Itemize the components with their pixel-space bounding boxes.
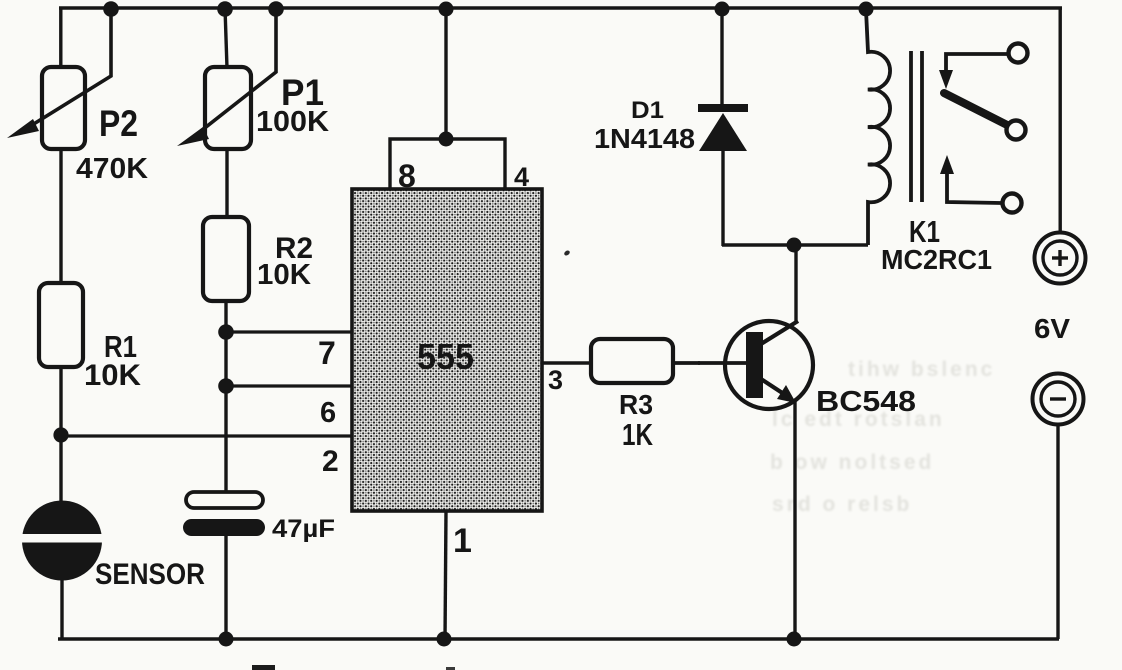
potentiometer P2 wiper arrow xyxy=(7,14,111,138)
resistor R3 xyxy=(591,339,673,383)
wire column to capacitor xyxy=(224,332,227,493)
wire top rail xyxy=(59,6,1062,10)
wire 555 supply drop xyxy=(444,8,447,140)
node top-rail P1 wiper junction xyxy=(268,1,284,17)
node top-rail P2 wiper junction xyxy=(103,1,119,17)
sensor xyxy=(16,501,110,581)
ghost bleed-through text row 3 xyxy=(770,451,934,474)
ghost bleed-through text row 2 xyxy=(772,408,945,431)
svg-text:R3: R3 xyxy=(619,389,653,420)
svg-text:P2: P2 xyxy=(99,103,138,144)
relay contact bottom xyxy=(1003,194,1022,213)
relay contact middle xyxy=(1007,121,1026,140)
caption fragment Di xyxy=(252,665,275,670)
capacitor C1 top plate xyxy=(186,492,263,508)
wire collector up xyxy=(794,246,797,322)
svg-text:3: 3 xyxy=(548,365,563,395)
ghost bleed-through text row 1 xyxy=(848,358,995,381)
node top-rail P1 top junction xyxy=(217,1,233,17)
wire pin 3 xyxy=(542,361,592,364)
relay switch bottom arrow wire xyxy=(940,155,1001,203)
wire bottom rail xyxy=(58,637,1059,641)
op-amp U1 555 body xyxy=(352,189,542,511)
node bottom-rail emitter junction xyxy=(787,632,802,647)
wire P1 to R2 xyxy=(225,149,228,218)
wire left column top xyxy=(59,8,62,69)
wire R3 to base xyxy=(673,361,700,365)
wire pin8/4 connector bracket xyxy=(390,139,505,189)
potentiometer P2 body xyxy=(42,67,85,149)
wire emitter down xyxy=(793,401,796,640)
svg-text:1: 1 xyxy=(453,522,472,560)
node bottom-rail capacitor junction xyxy=(219,632,234,647)
relay switch blade xyxy=(944,93,1013,128)
svg-text:47µF: 47µF xyxy=(272,515,335,543)
svg-text:470K: 470K xyxy=(76,153,148,185)
potentiometer P1 body xyxy=(205,67,251,149)
potentiometer P1 wiper arrow xyxy=(177,14,276,146)
wire P2 to R1 xyxy=(59,149,62,284)
wire relay bottom link xyxy=(722,243,868,246)
ink speck xyxy=(563,249,570,256)
resistor R2 xyxy=(203,217,249,301)
svg-text:srd o relsb: srd o relsb xyxy=(772,493,912,516)
node collector junction xyxy=(787,238,802,253)
resistor R1 xyxy=(39,283,83,367)
relay contact top xyxy=(1009,44,1028,63)
battery - terminal xyxy=(1033,374,1084,425)
battery + terminal xyxy=(1035,233,1086,284)
capacitor C1 bottom plate xyxy=(183,519,265,536)
wire pin 1 stub xyxy=(445,511,446,640)
wire capacitor to bottom rail xyxy=(224,535,227,640)
svg-text:SENSOR: SENSOR xyxy=(95,558,205,591)
svg-text:100K: 100K xyxy=(256,106,329,138)
wire right rail down to + terminal xyxy=(1058,8,1061,232)
node top-rail 555 supply junction xyxy=(439,2,454,17)
svg-text:BC548: BC548 xyxy=(816,386,916,418)
svg-text:6: 6 xyxy=(320,397,336,429)
relay switch top contact wire with arrow xyxy=(939,54,1007,89)
node top-rail D1 junction xyxy=(715,2,730,17)
relay core lines xyxy=(909,51,913,202)
relay K1 coil xyxy=(866,10,890,245)
svg-text:2: 2 xyxy=(322,445,339,478)
node pin2 junction xyxy=(53,427,68,442)
wire pin 7 xyxy=(226,330,352,333)
svg-text:tihw bslenc: tihw bslenc xyxy=(848,358,995,381)
svg-text:1K: 1K xyxy=(622,417,653,452)
node pin8/4 connector junction xyxy=(439,132,454,147)
wire pin 6 xyxy=(226,384,352,387)
transistor Q1 BC548 xyxy=(698,321,813,409)
svg-text:MC2RC1: MC2RC1 xyxy=(881,244,992,275)
wire P1 top xyxy=(225,8,227,68)
svg-text:10K: 10K xyxy=(257,259,311,291)
svg-text:1N4148: 1N4148 xyxy=(594,123,695,154)
node top-rail relay coil junction xyxy=(859,2,874,17)
wire pin 2 xyxy=(61,434,352,437)
svg-text:555: 555 xyxy=(417,336,474,377)
node pin6 junction xyxy=(218,378,234,394)
ghost bleed-through text row 4 xyxy=(772,493,912,516)
node bottom-rail pin1 junction xyxy=(437,632,452,647)
node pin7 junction xyxy=(218,324,234,340)
wire R2 to pin7 node xyxy=(224,301,227,334)
caption fragment f xyxy=(446,667,455,670)
svg-text:7: 7 xyxy=(318,335,336,371)
svg-text:10K: 10K xyxy=(84,359,141,392)
wire R1 to sensor xyxy=(59,367,62,504)
wire sensor to bottom rail xyxy=(60,578,63,640)
svg-text:6V: 6V xyxy=(1034,313,1070,344)
svg-text:D1: D1 xyxy=(631,97,664,124)
diode D1 xyxy=(698,8,748,246)
wire - terminal to bottom rail xyxy=(1056,424,1059,639)
